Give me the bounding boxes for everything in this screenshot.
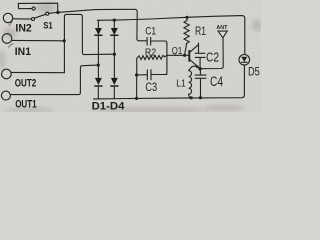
svg-text:D5: D5 [248, 64, 260, 78]
capacitor C4 [195, 69, 206, 98]
diode D5 circle [239, 55, 250, 66]
wire bridge B column [113, 35, 115, 78]
node junction S1 output [56, 11, 59, 14]
capacitor C1 [147, 38, 151, 46]
capacitor C2 [195, 53, 205, 57]
svg-text:OUT1: OUT1 [15, 99, 36, 111]
node bridge A mid [97, 64, 100, 67]
wire emitter to antenna riser [200, 38, 223, 69]
svg-text:D1-D4: D1-D4 [92, 101, 126, 112]
svg-text:C4: C4 [210, 74, 223, 89]
svg-text:R1: R1 [195, 26, 206, 38]
terminal IN2 [3, 13, 12, 22]
svg-text:IN2: IN2 [15, 23, 31, 35]
svg-text:L1: L1 [176, 78, 186, 89]
svg-text:C1: C1 [145, 25, 156, 37]
emitter arrowhead [195, 65, 198, 68]
wire base [167, 54, 189, 56]
transistor Q1 base bar [188, 51, 190, 61]
wire IN1 [12, 39, 64, 41]
node C3 left [135, 73, 138, 76]
diode D1 lead [97, 20, 99, 28]
svg-text:C2: C2 [206, 50, 219, 64]
wire main horizontal to C1 [58, 9, 147, 41]
transistor Q1 collector [189, 43, 198, 53]
wire bridge A column [97, 35, 99, 78]
wire R2 left riser [136, 58, 138, 98]
terminal OUT2 [2, 69, 12, 79]
node L1 bottom [190, 96, 193, 99]
diode D2 [111, 28, 118, 35]
wire C2 top lead [198, 44, 200, 53]
wire L1 bottom [189, 94, 192, 98]
switch S1 throw contact [46, 12, 49, 15]
node IN1 junction [63, 39, 66, 42]
wire bridge top rail [97, 16, 245, 55]
wire C3 right lead [151, 74, 167, 76]
svg-text:Q1: Q1 [172, 46, 183, 57]
svg-text:S1: S1 [43, 21, 53, 32]
terminal IN1 [2, 34, 12, 44]
wire bottom rail [94, 65, 245, 99]
node C4 bottom [199, 96, 202, 99]
node bottom rail R2 [135, 97, 138, 100]
terminal OUT1 [1, 91, 10, 100]
svg-text:C3: C3 [145, 82, 157, 94]
inductor L1 [189, 71, 192, 95]
inductor L1 wire from emitter [189, 66, 201, 70]
svg-text:OUT2: OUT2 [15, 78, 36, 90]
transistor Q1 emitter [189, 59, 199, 68]
wire throw to junction [49, 12, 57, 15]
wire upper contact loop [18, 3, 57, 12]
wire OUT1 to bridge A mid [10, 65, 98, 95]
diode D2 lead [113, 20, 115, 28]
svg-text:IN1: IN1 [15, 46, 31, 58]
node R1 top [185, 16, 188, 19]
resistor R1 [184, 17, 189, 55]
node emitter [198, 67, 201, 70]
capacitor C3 [147, 70, 151, 80]
wire C2 bottom to emitter node [199, 58, 201, 69]
diode D5 [241, 57, 247, 62]
node rail right diode [113, 19, 116, 22]
diode D3 [95, 78, 102, 85]
switch S1 lever [34, 14, 46, 18]
svg-text:R2: R2 [145, 47, 157, 58]
switch S1 pole contact [32, 18, 35, 21]
resistor R2 [137, 55, 167, 59]
wire C3 left lead [137, 74, 147, 76]
wire D3 to bottom rail [97, 86, 99, 99]
node base [183, 54, 186, 57]
wire IN1/OUT2 riser and branch to bridge [64, 14, 114, 72]
paper background [0, 0, 261, 112]
wire OUT2 [11, 71, 64, 73]
wire D4 to bottom rail [113, 86, 115, 99]
wire IN2 to switch [13, 18, 32, 20]
diode D4 [111, 78, 118, 85]
wire C1 right to base node [151, 41, 167, 75]
svg-text:ANT: ANT [216, 25, 228, 31]
switch S1 upper contact [32, 7, 35, 10]
diode D1 [95, 28, 102, 35]
node bridge B mid [113, 53, 116, 56]
antenna ANT [218, 31, 227, 38]
